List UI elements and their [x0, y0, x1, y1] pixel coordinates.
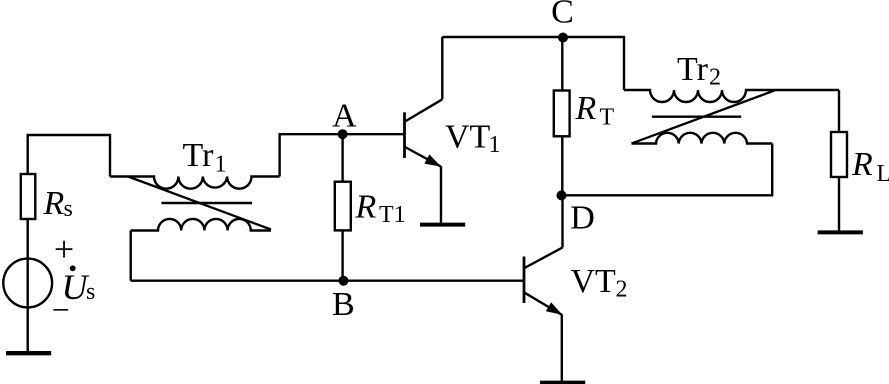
transistor VT1	[405, 99, 443, 166]
svg-text:Tr: Tr	[677, 51, 709, 88]
transformer Tr2 core	[652, 115, 741, 117]
wire RT to node D	[561, 136, 563, 195]
svg-text:T1: T1	[379, 202, 406, 228]
transformer Tr1 primary winding	[110, 177, 280, 189]
node A	[338, 129, 348, 139]
svg-text:B: B	[332, 286, 355, 323]
svg-text:s: s	[64, 196, 73, 222]
label Rs	[43, 185, 73, 222]
wire node D down to VT2 collector	[561, 195, 563, 247]
svg-text:1: 1	[489, 132, 501, 158]
wire Tr2 primary right down to RL	[838, 90, 840, 132]
wire VT1 collector up	[441, 37, 443, 99]
voltage source Us	[3, 259, 52, 308]
node D	[557, 190, 567, 200]
svg-text:R: R	[355, 188, 377, 225]
svg-text:VT: VT	[571, 263, 617, 300]
label RT1	[355, 188, 406, 228]
svg-text:L: L	[877, 161, 889, 187]
resistor RT	[554, 91, 570, 137]
svg-text:+: +	[54, 229, 74, 269]
transistor VT2	[524, 248, 563, 315]
wire Rs top to Tr1 primary	[28, 135, 110, 177]
wire node A down to RT1	[341, 134, 343, 182]
svg-text:R: R	[851, 146, 873, 183]
svg-text:2: 2	[709, 65, 721, 91]
wire Tr1 primary right to node A	[280, 134, 343, 176]
wire bottom bus Tr1 secondary to VT2 base	[131, 280, 523, 282]
transformer Tr1 diagonal	[128, 177, 271, 230]
transformer Tr1 core	[162, 202, 253, 204]
wire node A to VT1 base	[343, 133, 404, 135]
wire Tr1 secondary left down to bus	[129, 231, 131, 281]
svg-text:2: 2	[616, 277, 628, 303]
svg-text:D: D	[570, 200, 595, 237]
svg-text:C: C	[551, 0, 574, 31]
transformer Tr2 diagonal	[632, 90, 776, 143]
wire source vertical through circle	[27, 218, 29, 351]
label Us	[62, 265, 96, 307]
svg-text:Tr: Tr	[183, 137, 215, 174]
label VT2	[571, 263, 628, 303]
wire VT2 emitter down	[561, 314, 563, 381]
resistor RL	[831, 132, 847, 177]
wire node D to Tr2 secondary	[562, 144, 773, 196]
transformer Tr1 secondary winding	[131, 219, 271, 231]
svg-text:s: s	[86, 279, 95, 305]
node C	[558, 33, 568, 43]
label Tr1	[183, 137, 227, 177]
ground (VT1 emitter)	[420, 223, 465, 227]
svg-text:1: 1	[215, 151, 227, 177]
transformer Tr2 secondary winding	[632, 133, 773, 144]
ground (RL)	[818, 230, 863, 234]
label RT	[575, 90, 615, 131]
svg-text:R: R	[43, 185, 65, 222]
svg-text:A: A	[332, 98, 357, 135]
svg-text:R: R	[575, 90, 597, 127]
transformer Tr2 primary winding	[624, 90, 839, 102]
wire top rail VT1 collector to Tr2	[442, 37, 624, 90]
resistor RT1	[335, 182, 351, 231]
node B	[339, 276, 349, 286]
ground (VT2 emitter)	[540, 381, 585, 384]
label VT1	[445, 119, 501, 159]
wire RT1 to node B	[341, 230, 343, 280]
label RL	[851, 146, 889, 187]
ground (below source)	[6, 351, 51, 355]
wire VT1 emitter down	[440, 166, 442, 223]
label Tr2	[677, 51, 721, 91]
svg-text:VT: VT	[445, 119, 491, 156]
svg-text:T: T	[600, 105, 615, 131]
resistor Rs	[21, 174, 36, 219]
wire RL down to ground	[838, 177, 840, 231]
wire node C down to RT	[561, 37, 563, 91]
